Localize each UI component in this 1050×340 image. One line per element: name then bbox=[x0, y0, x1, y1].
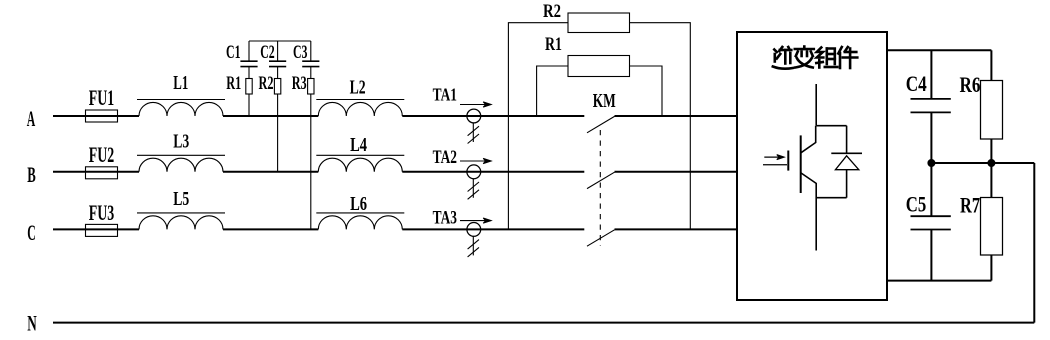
resistor R1 (precharge, bypasses KM pole A) bbox=[568, 56, 630, 77]
wire phase A segment 2 (between L coils) bbox=[223, 115, 318, 117]
fuse FU3 bbox=[86, 224, 118, 236]
capacitor C3 bbox=[302, 61, 319, 66]
wire R2 right lead bbox=[630, 23, 691, 230]
wire phase C segment 1 (start to L coil) bbox=[53, 228, 139, 230]
svg-text:C3: C3 bbox=[293, 43, 308, 63]
label inverter module title 逆变组件 bbox=[773, 47, 858, 69]
svg-text:KM: KM bbox=[593, 90, 616, 112]
capacitor C5 bbox=[911, 163, 951, 281]
svg-text:C2: C2 bbox=[260, 43, 275, 63]
wire midpoint to neutral N bbox=[1033, 163, 1035, 323]
fuse FU2 bbox=[86, 167, 118, 179]
inductor L3 bbox=[137, 155, 225, 172]
inductor L1 bbox=[137, 100, 225, 117]
svg-text:A: A bbox=[27, 106, 36, 131]
wire phase B segment 4 (KM contact to inverter box) bbox=[615, 171, 738, 173]
capacitor C4 bbox=[911, 50, 951, 163]
inductor L4 bbox=[316, 155, 404, 172]
wire phase B segment 1 (start to L coil) bbox=[53, 171, 139, 173]
inverter module U1 (box) bbox=[737, 32, 887, 300]
svg-text:TA3: TA3 bbox=[433, 208, 457, 229]
wire C2 top stub bbox=[277, 41, 279, 61]
transistor Q1 body bar bbox=[800, 135, 802, 193]
svg-text:L1: L1 bbox=[173, 72, 188, 94]
resistor R2 (precharge, bypasses KM pole C) bbox=[568, 13, 630, 33]
svg-text:R2: R2 bbox=[543, 1, 561, 22]
svg-text:N: N bbox=[27, 310, 37, 335]
transistor Q1 gate bar bbox=[787, 151, 789, 171]
fuse FU1 bbox=[86, 110, 118, 122]
svg-text:R1: R1 bbox=[226, 74, 241, 94]
svg-text:L2: L2 bbox=[350, 77, 366, 99]
wire phase A segment 4 (KM contact to inverter box) bbox=[615, 115, 738, 117]
svg-text:L6: L6 bbox=[350, 193, 367, 215]
transistor Q1 gate drive arrow bbox=[763, 155, 787, 165]
arrow TA2 bbox=[460, 158, 491, 163]
svg-text:L5: L5 bbox=[173, 188, 189, 210]
wire DC+ top bus bbox=[887, 49, 991, 51]
wire phase C segment 4 (KM contact to inverter box) bbox=[615, 228, 738, 230]
resistor R6 bbox=[981, 50, 1003, 163]
wire phase A segment 3 (L coil to KM contact) bbox=[402, 115, 584, 117]
wire emitter junction to diode branch bbox=[816, 197, 846, 199]
inductor L2 bbox=[316, 100, 404, 117]
resistor R3 bbox=[308, 79, 314, 95]
diode D1 branch upper wire bbox=[846, 126, 848, 153]
svg-text:C5: C5 bbox=[906, 192, 927, 217]
wire neutral N bbox=[53, 322, 1034, 324]
node midpoint junction at R6/R7 bbox=[988, 160, 995, 167]
svg-text:R1: R1 bbox=[545, 34, 562, 55]
wire phase B segment 2 (between L coils) bbox=[223, 171, 318, 173]
wire C3 to R3 bbox=[310, 67, 312, 79]
svg-text:R6: R6 bbox=[960, 72, 981, 97]
svg-text:FU3: FU3 bbox=[89, 200, 115, 225]
current transformer TA3 bbox=[467, 223, 481, 257]
capacitor C2 bbox=[269, 61, 286, 66]
transistor Q1 (IGBT) collector stub bbox=[815, 84, 817, 126]
inductor L5 bbox=[137, 213, 225, 230]
svg-text:C: C bbox=[27, 220, 36, 245]
svg-text:B: B bbox=[27, 162, 36, 187]
svg-text:TA2: TA2 bbox=[433, 147, 457, 168]
svg-text:R3: R3 bbox=[292, 74, 307, 94]
svg-text:L4: L4 bbox=[350, 134, 367, 156]
current transformer TA1 bbox=[467, 109, 481, 143]
transistor Q1 collector lead bbox=[801, 126, 816, 153]
node midpoint junction at C4/C5 bbox=[928, 160, 935, 167]
resistor R7 bbox=[981, 163, 1003, 281]
wire phase C segment 2 (between L coils) bbox=[223, 228, 318, 230]
contactor KM linkage (dashed) bbox=[599, 130, 601, 246]
wire R1 left lead bbox=[537, 66, 568, 116]
wire phase B segment 3 (L coil to KM contact) bbox=[402, 171, 584, 173]
contactor KM pole B blade bbox=[587, 172, 615, 188]
svg-text:C4: C4 bbox=[906, 71, 927, 96]
wire R2 left lead bbox=[508, 23, 568, 230]
wire C1 to R1 bbox=[248, 67, 250, 79]
svg-text:FU1: FU1 bbox=[89, 85, 115, 110]
wire DC- bottom bus bbox=[887, 280, 991, 282]
wire C1 top stub bbox=[248, 41, 250, 61]
wire collector junction to diode branch bbox=[816, 125, 846, 127]
wire phase C segment 3 (L coil to KM contact) bbox=[402, 228, 584, 230]
svg-text:TA1: TA1 bbox=[433, 85, 457, 105]
wire phase A segment 1 (start to L coil) bbox=[53, 115, 139, 117]
capacitor C1 bbox=[240, 61, 257, 66]
wire midpoint rail bbox=[931, 162, 1034, 164]
contactor KM pole C blade bbox=[587, 230, 615, 246]
arrow TA3 bbox=[460, 218, 491, 223]
contactor KM pole A blade bbox=[587, 116, 615, 132]
wire R1 down to phase bbox=[248, 94, 250, 116]
diode D1 branch lower wire bbox=[846, 170, 848, 198]
arrow TA1 bbox=[460, 102, 491, 107]
transistor Q1 emitter lead bbox=[801, 173, 816, 251]
svg-text:R2: R2 bbox=[259, 74, 274, 94]
wire C3 top stub bbox=[310, 41, 312, 61]
wire R2 down to phase bbox=[277, 94, 279, 172]
resistor R2 bbox=[274, 79, 280, 95]
svg-text:L3: L3 bbox=[173, 131, 189, 153]
resistor R1 bbox=[246, 79, 252, 95]
wire C2 to R2 bbox=[277, 67, 279, 79]
current transformer TA2 bbox=[467, 165, 481, 199]
diode D1 triangle bbox=[835, 156, 858, 170]
wire R1 right lead bbox=[630, 66, 663, 116]
diode D1 cathode bar bbox=[831, 152, 862, 154]
svg-text:R7: R7 bbox=[960, 193, 980, 218]
wire R3 down to phase bbox=[310, 94, 312, 229]
wire snubber top bus bbox=[249, 40, 311, 42]
svg-text:FU2: FU2 bbox=[89, 142, 115, 167]
inductor L6 bbox=[316, 213, 404, 230]
svg-text:C1: C1 bbox=[226, 43, 241, 63]
